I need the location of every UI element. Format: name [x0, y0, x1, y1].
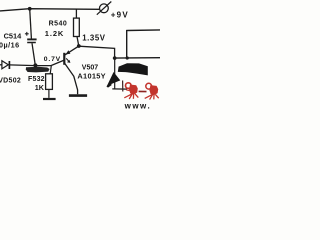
resistor R540 [74, 9, 80, 45]
dark stroke under arrow head [122, 81, 124, 92]
svg-text:VD502: VD502 [0, 77, 21, 84]
node emitter junction below R540 [77, 44, 81, 48]
arrow pointer at base node [66, 58, 70, 63]
power terminal +9V circle symbol [97, 2, 112, 15]
ground at V507 collector [69, 94, 87, 97]
watermark red glyph 2 [139, 83, 159, 99]
svg-text:1K: 1K [35, 83, 45, 92]
resistor F532 [46, 66, 53, 98]
svg-text:+9V: +9V [111, 10, 129, 19]
node junction C514 / diode wire [33, 63, 37, 67]
diode VD502 [0, 61, 9, 69]
transistor V507 PNP [64, 46, 79, 94]
annotation arrow head [107, 72, 120, 86]
svg-text:1.35V: 1.35V [82, 34, 106, 43]
svg-text:0µ/16: 0µ/16 [0, 40, 20, 49]
svg-text:F532: F532 [28, 76, 45, 83]
watermark red glyph 1 [124, 83, 138, 99]
wire diode to base of V507 [9, 60, 64, 66]
ground at F532 [43, 98, 56, 100]
svg-text:0.7V: 0.7V [44, 56, 61, 63]
capacitor C514 polarized [25, 9, 37, 65]
svg-text:1.2K: 1.2K [45, 29, 64, 38]
svg-text:www.: www. [124, 102, 152, 110]
wire emitter node to IC box [79, 46, 115, 58]
node junction bus / box edge [126, 56, 129, 59]
annotation arrow body (thick black) [118, 63, 148, 75]
node junction of C514 with +9V rail [28, 7, 32, 11]
node junction bus / emitter branch [113, 56, 117, 60]
wire +9V rail top [0, 9, 99, 11]
wire bottom bus into IC box [113, 57, 160, 59]
ink smear blotch [26, 67, 50, 73]
svg-text:R540: R540 [49, 20, 68, 27]
wire stub down from bus junction [114, 58, 116, 89]
IC block U outline (cut off at right) [127, 30, 160, 58]
svg-text:A1015Y: A1015Y [77, 71, 106, 80]
wire bottom-right segment [112, 88, 127, 90]
svg-text:C514: C514 [4, 32, 23, 41]
